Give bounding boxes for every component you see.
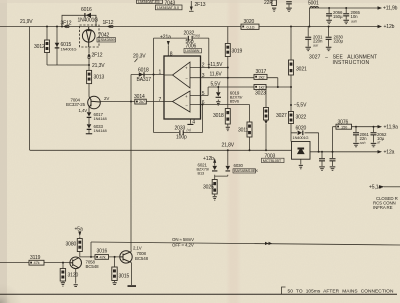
svg-text:LM345AT-5.0: LM345AT-5.0 <box>157 5 180 10</box>
svg-text:21,8V: 21,8V <box>222 143 235 149</box>
svg-text:3015: 3015 <box>119 273 130 279</box>
svg-text:BC548: BC548 <box>86 264 100 269</box>
svg-text:6018: 6018 <box>138 67 149 73</box>
svg-text:2: 2 <box>202 63 205 69</box>
svg-text:BC337-25: BC337-25 <box>66 102 86 107</box>
svg-text:+5,1a: +5,1a <box>369 184 381 190</box>
svg-text:1F12: 1F12 <box>103 20 114 26</box>
svg-text:1,4V: 1,4V <box>79 108 88 113</box>
svg-text:ESM2859: ESM2859 <box>98 37 114 42</box>
svg-text:BA317: BA317 <box>137 77 152 83</box>
svg-text:+11,5V: +11,5V <box>208 62 224 68</box>
svg-text:BAS48M10EX: BAS48M10EX <box>234 168 258 173</box>
svg-text:220µ: 220µ <box>334 39 344 44</box>
svg-text:2F12: 2F12 <box>92 53 103 59</box>
svg-text:B5V6: B5V6 <box>230 98 239 103</box>
svg-text:(u): (u) <box>187 128 191 132</box>
svg-text:3011: 3011 <box>238 127 249 133</box>
svg-text:ON ≈ 58mV: ON ≈ 58mV <box>172 237 194 242</box>
svg-text:2k7: 2k7 <box>139 99 145 104</box>
svg-text:22R: 22R <box>264 0 273 6</box>
svg-text:1N4148: 1N4148 <box>94 128 107 133</box>
svg-text:MC78L05T: MC78L05T <box>263 158 282 163</box>
svg-text:aah: aah <box>360 141 366 145</box>
svg-text:150µ: 150µ <box>333 14 343 19</box>
svg-text:20,3V: 20,3V <box>133 54 146 60</box>
svg-text:6: 6 <box>202 100 205 106</box>
svg-text:2F13: 2F13 <box>195 2 206 8</box>
svg-text:LM358N: LM358N <box>185 48 199 53</box>
svg-text:7: 7 <box>159 97 162 103</box>
svg-text:3025: 3025 <box>203 184 214 190</box>
svg-text:3012: 3012 <box>34 44 45 50</box>
svg-text:INSTRUCTION: INSTRUCTION <box>333 60 370 66</box>
svg-text:+12b: +12b <box>384 24 395 30</box>
svg-text:−5,5V: −5,5V <box>294 103 307 109</box>
svg-text:8: 8 <box>170 51 173 57</box>
svg-text:22n: 22n <box>360 136 368 141</box>
svg-text:50 TO 105ms AFTER MAINS CONNEC: 50 TO 105ms AFTER MAINS CONNECTION <box>288 288 394 294</box>
svg-text:5001: 5001 <box>308 1 319 7</box>
svg-text:5: 5 <box>202 91 205 97</box>
svg-text:11,6V: 11,6V <box>210 71 223 77</box>
svg-text:BC548: BC548 <box>135 256 149 261</box>
svg-text:+12a: +12a <box>384 150 395 156</box>
svg-text:47k: 47k <box>100 254 106 259</box>
svg-text:0,1Ω: 0,1Ω <box>247 25 255 30</box>
svg-text:4: 4 <box>192 119 195 125</box>
svg-text:3021: 3021 <box>296 67 307 73</box>
svg-text:3080: 3080 <box>66 241 77 247</box>
svg-text:+5a: +5a <box>75 226 83 232</box>
svg-text:3023: 3023 <box>255 90 266 96</box>
svg-text:150: 150 <box>341 124 348 129</box>
svg-text:1k2: 1k2 <box>259 85 265 90</box>
svg-text:OFF ≈ 4,2V: OFF ≈ 4,2V <box>172 243 194 248</box>
svg-text:3013: 3013 <box>94 75 105 81</box>
svg-text:3F12: 3F12 <box>61 20 72 26</box>
svg-text:+11,9a: +11,9a <box>384 124 399 130</box>
svg-text:aah: aah <box>351 20 357 24</box>
svg-text:LM340AT-E5: LM340AT-E5 <box>138 0 159 4</box>
svg-text:47k: 47k <box>34 260 40 265</box>
svg-text:+11,9b: +11,9b <box>383 6 398 12</box>
svg-text:+21a: +21a <box>160 35 171 41</box>
svg-text:10n: 10n <box>351 14 359 19</box>
svg-text:aar: aar <box>313 44 319 48</box>
svg-text:21,9V: 21,9V <box>20 19 33 25</box>
svg-text:3: 3 <box>202 73 205 79</box>
svg-text:5,5V: 5,5V <box>211 81 222 87</box>
svg-text:100p: 100p <box>176 135 187 141</box>
svg-text:2V: 2V <box>104 96 109 101</box>
svg-text:3027: 3027 <box>276 113 287 119</box>
svg-text:3019: 3019 <box>232 48 243 54</box>
svg-text:INFRA RE: INFRA RE <box>373 205 393 210</box>
svg-text:3120: 3120 <box>68 272 79 278</box>
svg-text:3022: 3022 <box>296 114 307 120</box>
svg-text:6020: 6020 <box>296 125 307 131</box>
svg-text:6016: 6016 <box>81 7 92 13</box>
svg-text:1N4001G: 1N4001G <box>78 17 99 23</box>
svg-text:(aa): (aa) <box>194 33 200 37</box>
svg-text:1N4001G: 1N4001G <box>61 46 77 51</box>
svg-text:1N4001G: 1N4001G <box>293 135 309 140</box>
svg-text:1N4148: 1N4148 <box>94 116 107 121</box>
svg-text:2k2: 2k2 <box>259 75 265 80</box>
svg-text:6030: 6030 <box>234 163 244 168</box>
svg-text:2033: 2033 <box>175 126 186 132</box>
svg-text:21,3V: 21,3V <box>92 63 105 69</box>
svg-text:1: 1 <box>159 69 162 75</box>
svg-text:+12b: +12b <box>203 156 214 162</box>
svg-text:B13: B13 <box>198 170 205 175</box>
svg-text:3018: 3018 <box>213 113 224 119</box>
